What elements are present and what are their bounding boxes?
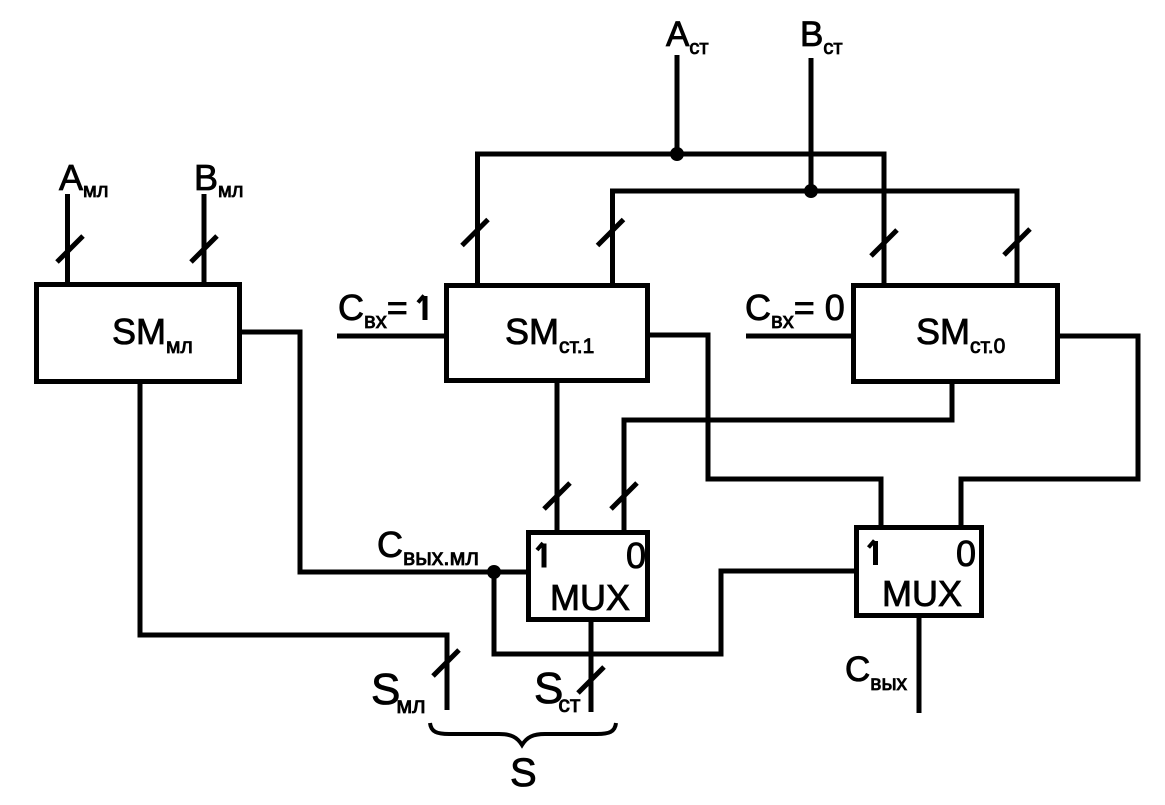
pin label 1 of middle MUX — [537, 543, 544, 568]
adder SM_мл box — [37, 285, 240, 382]
multiplexer MUX middle box — [529, 533, 648, 620]
wire bus B_ст horizontal into SM_ст.1 and SM_ст.0 — [613, 191, 1018, 283]
junction node C_вых.мл select — [487, 565, 501, 579]
wire A_мл input — [65, 194, 70, 283]
bus slash B into SM_ст.1 — [598, 220, 624, 246]
wire right MUX output C_вых — [917, 614, 922, 713]
svg-text:Cвых: Cвых — [845, 650, 908, 695]
junction node on A_ст bus — [670, 147, 684, 161]
bus slash on middle MUX input 0 — [611, 483, 637, 509]
svg-text:0: 0 — [626, 535, 646, 576]
wire SM_мл carry out to MUX select (C_вых.мл) — [242, 332, 526, 572]
svg-text:0: 0 — [956, 533, 976, 574]
wire B_ст drop — [809, 58, 814, 191]
wire C_вх=0 input — [746, 334, 854, 339]
pin label 1 of right MUX — [869, 541, 876, 566]
svg-text:Bст: Bст — [800, 15, 843, 59]
svg-text:Aст: Aст — [666, 15, 709, 59]
wire SM_ст.1 sum out to middle MUX input 1 — [555, 383, 560, 530]
bus slash on A_мл — [57, 236, 83, 262]
svg-text:Cвх=: Cвх= — [338, 287, 408, 333]
adder SM_ст.1 box — [447, 286, 648, 381]
bus slash on S_ст wire — [578, 667, 604, 693]
wire SM_мл sum out to S_мл — [140, 384, 447, 710]
wire bus A_ст horizontal into SM_ст.1 and SM_ст.0 — [478, 154, 885, 283]
brace grouping S_мл and S_ст — [430, 723, 616, 745]
bus slash on S_мл wire — [433, 650, 459, 676]
multiplexer MUX right box — [857, 528, 982, 616]
wire middle MUX output S_ст — [589, 622, 594, 712]
adder SM_ст.0 box — [854, 286, 1058, 382]
wire select branch to right MUX — [494, 571, 856, 654]
junction node on B_ст bus — [804, 184, 818, 198]
wire C_вх=1 input — [337, 334, 444, 339]
svg-text:S: S — [510, 751, 537, 795]
wire B_мл input — [202, 194, 207, 283]
bus slash on B_мл — [191, 236, 217, 262]
svg-text:Sст: Sст — [534, 664, 581, 717]
svg-text:MUX: MUX — [882, 573, 962, 614]
svg-text:MUX: MUX — [550, 577, 630, 618]
wire SM_ст.0 carry out to right MUX input 0 — [961, 336, 1138, 526]
wire SM_ст.1 carry out to right MUX input 1 — [650, 335, 881, 526]
bus slash A into SM_ст.0 — [871, 230, 897, 256]
svg-text:Cвх= 0: Cвх= 0 — [745, 287, 845, 333]
bus slash B into SM_ст.0 — [1004, 229, 1030, 255]
svg-text:Sмл: Sмл — [371, 665, 426, 718]
bus slash on middle MUX input 1 — [544, 483, 570, 509]
svg-text:Bмл: Bмл — [194, 157, 243, 202]
wire A_ст drop — [675, 55, 680, 154]
bus slash A into SM_ст.1 — [462, 220, 488, 246]
svg-text:Aмл: Aмл — [59, 157, 108, 202]
wire SM_ст.0 sum out to middle MUX input 0 — [624, 383, 952, 530]
svg-text:Cвых.мл: Cвых.мл — [377, 524, 479, 570]
